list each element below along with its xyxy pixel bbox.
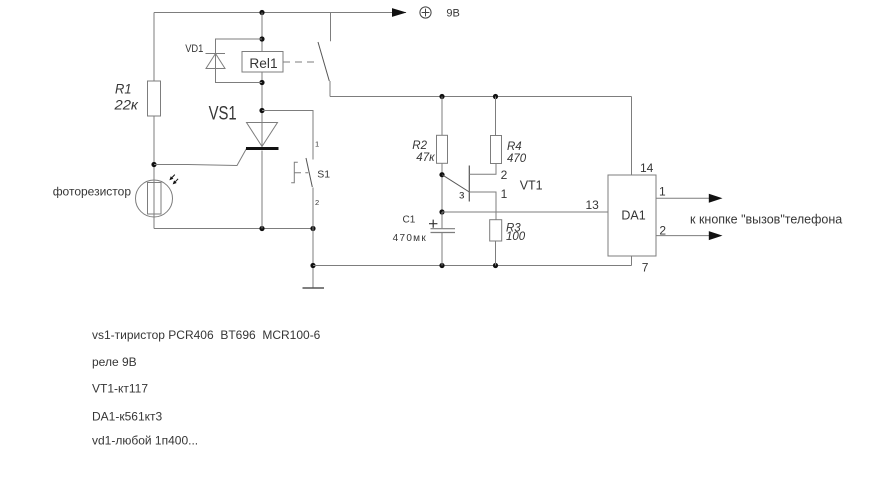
wire bus to R2 [441,97,443,136]
wire top supply rail [154,12,406,14]
svg-text:1: 1 [659,185,666,199]
wire contact to supply bus [329,81,331,97]
svg-text:2: 2 [315,198,319,207]
resistor R3 [490,220,502,241]
node thyristor cathode junction [259,226,264,231]
node R3 bottom junction [493,263,498,268]
arrow pin1 output [709,194,723,203]
wire bottom rail right [313,265,632,267]
resistor R2 [437,135,448,163]
svg-text:1: 1 [501,187,508,201]
node VS1 anode junction [259,108,264,113]
label R1 22к [113,81,138,112]
svg-text:реле 9В: реле 9В [92,355,137,369]
node VT1 emitter junction [439,172,444,177]
svg-text:vd1-любой 1п400...: vd1-любой 1п400... [92,433,198,447]
wire S1 bottom [312,188,314,229]
label з emitter [459,188,465,202]
node VD1 bottom junction [259,80,264,85]
transistor VT1 emitter line [442,175,469,192]
wire rail to relay contact [330,13,332,42]
svg-text:9В: 9В [446,7,459,19]
switch S1 button actuator [291,162,308,183]
wire gate of VS1 [154,149,247,166]
note line 4 DA1 type [92,410,162,424]
svg-text:DA1-к561кт3: DA1-к561кт3 [92,410,162,424]
svg-text:2: 2 [501,168,508,182]
svg-text:VS1: VS1 [209,104,237,125]
pin 1 of VT1 [501,187,508,201]
note line 3 VT1 type [92,381,148,395]
wire node to DA1 pin13 [442,211,608,213]
svg-text:VD1: VD1 [185,43,203,55]
wire DA1 pin7 to bottom rail [631,256,633,266]
label C1 470мк [393,215,427,244]
node gate junction [151,162,156,167]
label VS1 [209,104,237,125]
pin 1 of S1 [315,139,319,148]
svg-text:22к: 22к [113,97,138,112]
svg-text:C1: C1 [403,215,416,226]
svg-text:VT1-кт117: VT1-кт117 [92,381,148,395]
relay coil Rel1 [242,52,283,73]
node C1 bottom junction [439,263,444,268]
pin 2 of S1 [315,198,319,207]
pin 2 of DA1 [659,224,666,238]
svg-text:470мк: 470мк [393,233,427,244]
wire Rel1 to VS1 anode [261,72,263,147]
label S1 [317,168,330,180]
wire C1 node to capacitor [441,212,443,228]
node S1 bottom junction [310,226,315,231]
wire switched supply bus [330,96,632,98]
transistor VT1 base bar [468,166,470,202]
wire DA1 pin2 output [656,235,709,237]
diode VD1 [206,54,226,69]
op-amp DA1 [608,175,656,256]
label R4 470 [507,141,527,165]
wire VD1 branch top [216,39,263,69]
capacitor C1 [431,229,456,233]
label VT1 [520,179,543,193]
resistor R4 [491,136,502,164]
svg-text:13: 13 [586,198,600,212]
wire C1 to bottom rail [441,233,443,266]
wire bottom rail left [154,228,313,230]
node junction top of Rel1 branch [259,10,264,15]
ground [303,287,325,289]
arrow pin2 output [709,231,723,240]
wire R1 to photoresistor [153,116,155,183]
wire left vertical from rail to R1 [153,13,155,82]
label 9В supply voltage [446,7,459,19]
svg-text:R2: R2 [412,140,427,152]
photoresistor light arrows [169,175,178,185]
wire bus to DA1 pin14 [631,97,633,176]
svg-text:VT1: VT1 [520,179,543,193]
label VD1 [185,43,203,55]
wire VD1 branch bottom [216,69,263,83]
svg-text:R1: R1 [115,81,132,96]
svg-text:фоторезистор: фоторезистор [53,185,132,199]
node R4 top junction [493,94,498,99]
note line 2 relay [92,355,137,369]
svg-text:к кнопке "вызов"телефона: к кнопке "вызов"телефона [690,212,842,226]
svg-text:S1: S1 [317,168,330,180]
svg-text:з: з [459,188,465,202]
transistor VT1 base2 lead [469,164,496,175]
wire rail to Rel1 [261,13,263,52]
node ground rail junction [310,263,315,268]
thyristor VS1 triangle [247,123,278,147]
note line 5 vd1 type [92,433,198,447]
node R2 top junction [439,94,444,99]
wire anode to S1 [262,111,313,160]
power symbol circled plus [420,7,431,18]
transistor VT1 base1 lead [469,192,496,220]
label plus polarity [429,220,437,228]
label к кнопке вызов телефона [690,212,842,226]
photoresistor circle [136,180,173,217]
wire R3 to bottom rail [495,241,497,266]
svg-text:14: 14 [640,161,654,175]
svg-text:2: 2 [659,224,666,238]
pin 7 of DA1 [642,260,649,274]
power arrow to 9V [392,8,407,17]
node VD1 top junction [259,36,264,41]
svg-text:Rel1: Rel1 [249,56,277,71]
dashed link Rel1 to contact [283,61,317,63]
svg-text:1: 1 [315,139,319,148]
pin 1 of DA1 [659,185,666,199]
wire ground branch [312,229,314,288]
svg-text:100: 100 [506,231,526,243]
wire VS1 cathode down [261,151,263,229]
label фоторезистор [53,185,132,199]
node C1 top junction [439,209,444,214]
photoresistor body [148,183,162,215]
pin 2 of VT1 [501,168,508,182]
pin 14 of DA1 [640,161,654,175]
switch S1 blade [306,158,312,187]
label R3 100 [506,223,526,243]
svg-text:7: 7 [642,260,649,274]
relay contact blade [318,42,329,81]
thyristor VS1 cathode bar [246,147,279,150]
wire bus to R4 [495,97,497,136]
svg-text:vs1-тиристор PCR406 BT696 MC: vs1-тиристор PCR406 BT696 MCR100-6 [92,328,321,342]
label R2 47к [412,140,435,164]
wire R2 to C1 node [441,163,443,212]
wire DA1 pin1 output [656,197,709,199]
svg-text:DA1: DA1 [621,209,645,223]
wire photoresistor to bottom rail [153,214,155,229]
pin 13 of DA1 [586,198,600,212]
svg-text:470: 470 [507,153,527,165]
svg-text:R4: R4 [507,141,522,153]
svg-text:47к: 47к [416,152,435,164]
note line 1 vs1 types [92,328,321,342]
resistor R1 [148,81,161,116]
